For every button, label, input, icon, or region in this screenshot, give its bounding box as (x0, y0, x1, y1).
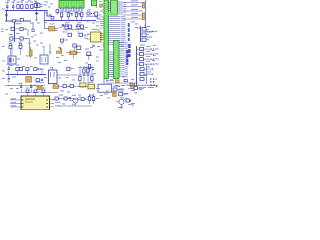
wire toY2 (83, 34, 89, 39)
U4 left pins (100, 17, 104, 28)
speck F (100, 10, 103, 13)
dot F1 (96, 6, 97, 7)
speck I (106, 90, 109, 93)
transistor Q6 (20, 37, 30, 40)
wire rbranch (137, 27, 141, 29)
resistor R10 (16, 65, 23, 71)
node n3 (61, 20, 62, 21)
label U1pins (60, 10, 82, 13)
U5 pin dashes R (46, 99, 48, 102)
comp pair lp (34, 68, 44, 75)
speck K (152, 59, 155, 62)
comp row rt (63, 85, 73, 88)
capacitor CS2 (137, 51, 159, 56)
resistor R20 (124, 80, 127, 82)
speck M (26, 55, 29, 58)
wire botr bus (126, 84, 158, 86)
capacitor C6 (56, 10, 59, 15)
label a1 (62, 24, 64, 26)
inductor L3 (59, 48, 62, 53)
label D4 (89, 81, 94, 84)
capacitor CT1 (140, 68, 153, 71)
capacitor C1 (6, 2, 9, 11)
U6 right pins (119, 43, 125, 77)
wire d3link (59, 85, 88, 87)
relay K1 (8, 56, 20, 66)
wire rvert0 (144, 0, 146, 32)
resistor R11 (26, 68, 29, 75)
comp bc3 (130, 87, 143, 90)
node n2 (16, 19, 17, 20)
U5 top pins (28, 93, 44, 97)
resistor R6 (12, 20, 15, 22)
comp b1 (55, 95, 64, 100)
capacitor CR2 (142, 32, 150, 37)
capacitor CT2 (140, 73, 153, 76)
small bits low (8, 79, 10, 83)
Y2 pins left (87, 34, 91, 39)
speck S (40, 32, 43, 35)
tan comp F1 (100, 4, 103, 7)
label mid (44, 4, 47, 7)
box under MCU (98, 84, 112, 92)
speck T (28, 42, 31, 45)
stray marks7 (60, 90, 64, 93)
U4b pin text2 (118, 1, 120, 4)
transistor Q2 grp (67, 12, 73, 21)
speck J (134, 92, 137, 95)
resistor R1 (17, 2, 20, 9)
green box U3a (91, 0, 96, 6)
U4b pin text (123, 1, 126, 4)
crystal Y1 (46, 24, 62, 31)
tan FB1 (116, 80, 120, 83)
speck Q (110, 79, 113, 82)
U5 top labels (26, 87, 30, 90)
xtal Y2 module (91, 32, 102, 42)
speck L (58, 61, 61, 64)
wire rbus1 (123, 2, 143, 4)
transistor Q1 grp (60, 13, 62, 21)
wire vertx14 (14, 22, 16, 42)
wire bus1 (5, 10, 44, 12)
wire vertx50 (49, 44, 51, 52)
wire rvert3 (146, 64, 148, 84)
comp b2 (64, 97, 74, 100)
speck G (30, 22, 33, 25)
label ml1 (16, 22, 22, 25)
cluster c2 (85, 45, 95, 61)
transistor Q9 (76, 22, 86, 29)
wire rvert1 (140, 26, 142, 42)
U4 left text (96, 17, 99, 20)
comp x52 (51, 17, 54, 20)
U4b right pins (118, 2, 124, 14)
wire rbranch2 (145, 31, 152, 33)
speck R (96, 56, 99, 59)
wire rbus3 (123, 10, 143, 12)
Y2 pin dots (100, 33, 101, 34)
purple conn (148, 84, 157, 88)
conn P2 (140, 78, 157, 83)
IC U1 (59, 1, 84, 9)
resistor R2 (20, 2, 23, 9)
U6 stripes (114, 42, 118, 76)
U1 pin drops (62, 11, 82, 13)
cap C20 (19, 83, 23, 92)
labels bc extra (115, 84, 119, 87)
U4 strip stripes (105, 2, 108, 76)
stray marks8 (96, 87, 100, 90)
wire vertx29 (29, 39, 31, 51)
U4 vert label2 (128, 44, 130, 48)
U4b bridge (108, 13, 118, 16)
transistor Q4 grp (81, 13, 83, 21)
resnet RN1 (142, 3, 145, 9)
wire q-link (66, 30, 78, 34)
speck A (45, 12, 48, 15)
transistor Q8 (64, 22, 74, 29)
stray marks6 (140, 44, 145, 47)
gnd g1 (49, 52, 52, 54)
transistor Q10 (70, 95, 81, 106)
U5 right labels (55, 97, 60, 100)
wire aboveU5 (16, 92, 58, 94)
wire y88r (128, 88, 144, 90)
label TL (2, 8, 5, 11)
cluster x87-98 (86, 10, 98, 17)
resistor R3 (26, 2, 29, 9)
transistor Q5 (20, 27, 29, 36)
comp bus2b (20, 18, 23, 21)
gnd D1 (35, 20, 38, 21)
tan L1 (29, 50, 32, 56)
IC U4b block (110, 0, 117, 15)
U1 stripes (61, 2, 82, 8)
capacitor CS4 (137, 61, 159, 66)
resistor R8b (79, 33, 83, 36)
comp c1a (9, 42, 13, 56)
tan D2 (37, 86, 42, 89)
cluster d1 (61, 39, 68, 45)
U6 mid pins (109, 52, 114, 77)
wire toK1 (12, 48, 44, 57)
stray marks4 (131, 21, 135, 24)
speck P (55, 29, 58, 32)
U5 text (25, 99, 35, 100)
stray marks3 (97, 45, 100, 48)
tan bc (113, 92, 117, 96)
U5 top boxes (26, 90, 45, 93)
wire bus2 (5, 20, 31, 22)
IC U4 strip (104, 0, 109, 79)
relay K3 (48, 67, 57, 84)
label ml3 (31, 36, 34, 39)
capacitor CR3 (142, 37, 150, 42)
tan T2 (26, 77, 32, 83)
opto U2a (11, 27, 20, 30)
wire x44.5 (45, 11, 46, 29)
IC U6 block (114, 41, 120, 79)
wire rbus5 (123, 18, 143, 20)
capacitor C2 (12, 2, 15, 11)
osc X1 (66, 44, 81, 59)
cluster res A (79, 69, 93, 81)
labels top extra (7, 0, 10, 2)
speck H (135, 26, 138, 29)
U5 left labels (11, 97, 16, 100)
comp c1b (19, 42, 23, 55)
wire underU6b (108, 82, 138, 84)
relay K2 (40, 55, 48, 64)
label ml2 (16, 32, 19, 35)
stray marks1 (33, 40, 36, 43)
node nml (14, 30, 15, 31)
U4 gap pins (108, 3, 111, 11)
speck D (2, 45, 5, 48)
cap C21 (30, 84, 32, 92)
U4b stripes (111, 2, 116, 12)
U4 vert label (128, 23, 130, 27)
U6 vert label (126, 50, 128, 54)
transistor Q3 grp (75, 12, 81, 21)
label F1 (99, 0, 102, 3)
U1 bottom pins (61, 8, 83, 11)
wire rvert2 (136, 46, 138, 86)
U6 pin text (125, 41, 128, 44)
diode D1 (35, 13, 38, 16)
stray marks10 (146, 66, 150, 69)
node n1 (7, 10, 8, 11)
resistor R4 (30, 2, 33, 9)
wire bc end (128, 105, 133, 108)
capacitor CR1 (142, 26, 150, 31)
U4 pin text2 (121, 15, 126, 18)
stray marks5 (102, 24, 105, 27)
tan D4 (88, 84, 95, 89)
resnet RN2 (142, 13, 145, 20)
wire y85a (5, 85, 45, 87)
wire lowdrops (9, 71, 18, 78)
wire lowbus (6, 74, 46, 76)
yellow box YB (80, 83, 86, 87)
wire underU6a (106, 79, 114, 85)
wire L1 (30, 47, 32, 58)
U5 right pins (50, 100, 55, 107)
cluster bc1 (119, 93, 129, 96)
wire vertx33 (32, 22, 34, 29)
label Y2 (92, 28, 98, 31)
IC U5 (21, 96, 50, 110)
U4 right pins (108, 17, 120, 45)
tan L2 (130, 83, 135, 87)
comp b3 (81, 98, 89, 101)
label low (12, 76, 16, 79)
capacitor C10 (7, 64, 11, 75)
resistor R5 (34, 1, 37, 8)
cluster wires A (78, 66, 94, 86)
wire rbus4 (123, 14, 143, 16)
speck E (86, 20, 89, 23)
tan D3 (53, 85, 59, 89)
cluster dots A (83, 67, 94, 76)
wire toU1 (40, 11, 52, 17)
capacitor C5 (5, 15, 7, 19)
wire b5 (58, 105, 92, 107)
speck N (10, 87, 13, 90)
label clA (85, 71, 89, 74)
comp lowmid (36, 79, 44, 83)
capacitor C3 (35, 2, 38, 11)
cluster bc0 (113, 86, 124, 92)
wire bus3 (44, 20, 96, 22)
cluster c3 (88, 65, 90, 73)
box lm (67, 67, 74, 70)
U5 left pins (10, 100, 21, 107)
U5 pin dashes L (22, 99, 24, 102)
speck C (121, 45, 124, 48)
cluster b4 (88, 94, 98, 105)
capacitor CS3 (137, 56, 159, 61)
speck O (65, 6, 68, 9)
resistor R8a (68, 33, 72, 36)
label D1 (40, 3, 43, 6)
wire rbus2 (123, 6, 143, 8)
Y2 pins right (101, 34, 104, 40)
wire b6 (51, 99, 81, 101)
transistor Q7 (116, 98, 131, 107)
wire drop-left (6, 11, 8, 22)
speck B (58, 77, 61, 80)
wire k3link (57, 74, 80, 76)
resistor R5b (38, 3, 40, 7)
capacitor CS1 (137, 46, 159, 51)
stray marks2 (56, 56, 59, 59)
comp bc2 (126, 99, 131, 102)
stray marks9 (120, 97, 124, 100)
opto U2b (9, 34, 20, 40)
gnd Q7 (120, 107, 123, 108)
